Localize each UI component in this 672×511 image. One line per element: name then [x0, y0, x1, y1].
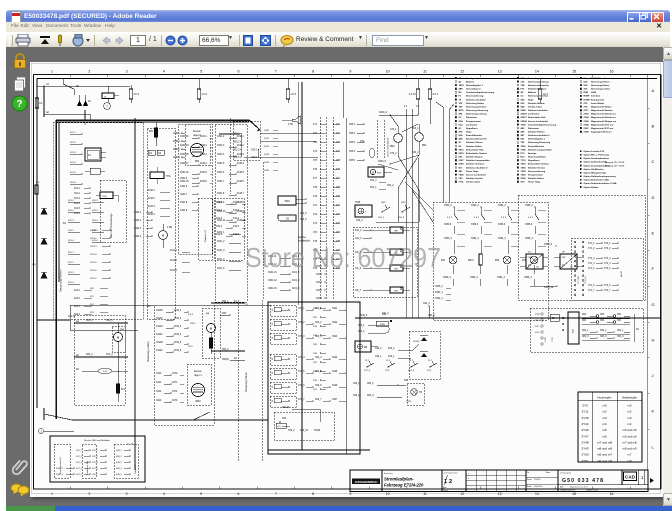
svg-text:K21.2: K21.2	[68, 262, 74, 264]
bus line mid	[355, 317, 660, 319]
svg-text:K21.2: K21.2	[68, 200, 74, 202]
svg-text:X32.3: X32.3	[234, 150, 241, 152]
switch S1 master	[62, 79, 64, 85]
svg-text:X41.3: X41.3	[92, 210, 98, 212]
svg-text:X341.11: X341.11	[217, 220, 226, 222]
svg-text:m3: m3	[602, 416, 606, 420]
fuse 1F8	[286, 89, 289, 99]
svg-text:[M]: [M]	[206, 313, 209, 315]
svg-text:3 F 9: 3 F 9	[134, 93, 140, 96]
svg-text:Anzeige: Anzeige	[466, 77, 475, 80]
svg-text:D: D	[652, 195, 655, 200]
svg-text:X60_3: X60_3	[600, 336, 607, 338]
svg-text:K23_2: K23_2	[388, 348, 395, 350]
right frame thick edge	[660, 75, 662, 490]
svg-text:X44.2: X44.2	[216, 210, 223, 212]
svg-text:X411: X411	[156, 382, 162, 384]
svg-text:H: H	[652, 337, 655, 342]
svg-text:4 S 3: 4 S 3	[501, 217, 507, 219]
deadman switches row	[367, 363, 374, 367]
svg-text:Φ: Φ	[372, 170, 374, 174]
svg-text:A: A	[652, 88, 655, 93]
svg-text:11: 11	[423, 70, 427, 74]
svg-text:X342_4: X342_4	[56, 474, 64, 476]
svg-text:X41.4: X41.4	[92, 220, 98, 222]
svg-text:Hupe: Hupe	[528, 99, 534, 101]
svg-text:Endschalter Hub: Endschalter Hub	[528, 116, 546, 119]
motor M2 service	[159, 231, 168, 240]
svg-text:Option Leuchte F12: Option Leuchte F12	[584, 150, 605, 153]
svg-text:2Y48: 2Y48	[584, 131, 590, 134]
svg-text:m7 und m8: m7 und m8	[623, 440, 637, 444]
svg-text:Sicherung Interface: Sicherung Interface	[528, 95, 549, 98]
svg-text:Endschalter Hub: Endschalter Hub	[466, 148, 484, 151]
svg-text:X3(49: X3(49	[314, 430, 321, 432]
svg-text:X350_4: X350_4	[443, 277, 452, 279]
svg-text:7Y45: 7Y45	[521, 148, 527, 151]
svg-text:K23_1: K23_1	[388, 356, 395, 358]
svg-text:X47_4: X47_4	[92, 468, 99, 470]
comments icon	[10, 483, 30, 498]
svg-text:X31.4: X31.4	[316, 282, 323, 284]
multiplex S3 block	[198, 198, 212, 260]
heavy bus feeder	[56, 119, 249, 121]
svg-text:K21.4: K21.4	[68, 282, 74, 284]
svg-text:X60_4: X60_4	[86, 354, 93, 356]
svg-text:Sensor-: Sensor-	[193, 130, 202, 133]
svg-text:ALGN: ALGN	[620, 271, 623, 277]
svg-text:Fahrmotor: Fahrmotor	[466, 116, 477, 119]
svg-text:G: G	[652, 302, 655, 307]
svg-text:Steuerung Heben: Steuerung Heben	[245, 372, 248, 392]
svg-text:K21.3: K21.3	[68, 220, 74, 222]
svg-text:X31.5: X31.5	[316, 290, 323, 292]
svg-text:X344.3: X344.3	[134, 228, 142, 230]
svg-text:X341.6: X341.6	[180, 186, 188, 188]
svg-text:X4109: X4109	[156, 342, 163, 344]
svg-text:X79_1: X79_1	[390, 129, 397, 131]
svg-text:Signalhorn: Signalhorn	[528, 160, 540, 162]
svg-text:Ausgang 24V / 312N: Ausgang 24V / 312N	[605, 165, 625, 168]
svg-text:Sicherung Heben: Sicherung Heben	[466, 103, 485, 105]
svg-text:K13.3: K13.3	[233, 218, 240, 220]
svg-text:Zugmagnet Bremse: Zugmagnet Bremse	[591, 131, 612, 134]
svg-text:2Y46: 2Y46	[584, 123, 590, 126]
svg-text:X41.2: X41.2	[92, 200, 98, 202]
svg-text:X61_3: X61_3	[106, 320, 113, 322]
svg-text:12: 12	[460, 492, 464, 496]
svg-text:X470: X470	[172, 373, 178, 375]
svg-text:X341: X341	[264, 138, 270, 140]
svg-text:X73_4: X73_4	[604, 263, 611, 265]
mini console dashed box	[100, 180, 126, 242]
module LR1	[526, 254, 543, 269]
svg-text:Fahrzeug ET2/4-220: Fahrzeug ET2/4-220	[384, 483, 424, 488]
relay box x5	[102, 93, 114, 99]
svg-text:X21.5: X21.5	[74, 208, 81, 210]
svg-text:Benennung: Benennung	[384, 473, 393, 475]
svg-text:X341.5: X341.5	[217, 163, 225, 165]
svg-text:X29_2: X29_2	[288, 430, 295, 432]
svg-text:Zeichnungs-Nr: Zeichnungs-Nr	[560, 472, 572, 475]
svg-text:X32.2: X32.2	[234, 142, 241, 144]
svg-text:m2: m2	[602, 410, 606, 414]
svg-text:X200: X200	[521, 178, 527, 180]
svg-text:Schluesselschalter 2: Schluesselschalter 2	[466, 166, 488, 169]
svg-text:IC44.2: IC44.2	[170, 260, 177, 262]
svg-text:m5 und m7: m5 und m7	[597, 453, 612, 457]
svg-text:X84_3: X84_3	[367, 395, 374, 397]
main enclosure solid box	[300, 112, 540, 454]
wire X32 to X7 rows	[260, 133, 320, 135]
svg-text:X341.4: X341.4	[217, 154, 225, 156]
svg-text:Fahrmotor: Fahrmotor	[528, 127, 539, 130]
svg-text:X341.14: X341.14	[268, 280, 277, 282]
wire drop col5	[287, 79, 289, 90]
svg-text:X341.20: X341.20	[180, 136, 189, 138]
connector block X71 X73	[571, 238, 643, 300]
svg-text:X60(2): X60(2)	[222, 359, 229, 361]
svg-text:X29.20: X29.20	[282, 407, 290, 409]
wire left rail lower	[43, 117, 45, 392]
svg-text:7S19: 7S19	[521, 164, 527, 166]
svg-text:Magnetventil 2YO vor: Magnetventil 2YO vor	[591, 123, 614, 126]
valve control block A10	[530, 308, 643, 352]
reference node 1	[38, 428, 43, 433]
svg-text:X341.7: X341.7	[217, 181, 225, 183]
svg-text:Option Sonderabnehmer: Option Sonderabnehmer	[584, 157, 610, 160]
svg-text:X70_7: X70_7	[298, 399, 305, 401]
box S3 limit	[278, 215, 296, 221]
svg-text:2Y43: 2Y43	[584, 113, 590, 116]
svg-text:Sensor-: Sensor-	[194, 370, 203, 373]
svg-text:Geschwindigkeitsmessung: Geschwindigkeitsmessung	[528, 123, 557, 126]
svg-text:K: K	[652, 409, 655, 414]
svg-text:K13.1: K13.1	[233, 202, 240, 204]
lamp 9M1	[415, 133, 424, 142]
svg-text:m8 und m9: m8 und m9	[623, 447, 637, 451]
svg-text:7: 7	[275, 492, 277, 496]
svg-text:21.03.00: 21.03.00	[534, 479, 540, 481]
svg-text:7S25: 7S25	[459, 174, 465, 176]
svg-text:36F2: 36F2	[195, 401, 201, 403]
svg-text:K31.2: K31.2	[68, 230, 74, 232]
svg-text:K21.1: K21.1	[68, 252, 74, 254]
diode V2	[41, 238, 47, 244]
svg-text:X44.3: X44.3	[216, 218, 223, 220]
right modules enclosure	[518, 195, 645, 300]
svg-text:X71_4: X71_4	[588, 263, 595, 265]
svg-text:X41.6: X41.6	[92, 240, 98, 242]
svg-text:X343: X343	[264, 154, 270, 156]
svg-text:2Y47: 2Y47	[581, 434, 588, 438]
connector X341 column A	[179, 124, 213, 254]
svg-text:X72_3: X72_3	[364, 370, 371, 372]
svg-text:X21.3: X21.3	[74, 198, 81, 200]
svg-text:X200_A: X200_A	[379, 111, 388, 114]
connector X341 column B	[215, 124, 247, 302]
svg-text:X342: X342	[264, 146, 270, 148]
svg-text:X326: X326	[332, 385, 338, 387]
svg-text:23S75: 23S75	[521, 114, 528, 116]
svg-text:13: 13	[498, 70, 502, 74]
svg-text:K21.2: K21.2	[70, 142, 76, 144]
fuse 3F9	[129, 89, 132, 99]
svg-text:9M1: 9M1	[422, 145, 427, 147]
svg-text:m5 und m6: m5 und m6	[623, 434, 637, 438]
svg-text:X341.7: X341.7	[180, 194, 188, 196]
svg-text:Magnetventil Senken: Magnetventil Senken	[591, 109, 613, 112]
svg-text:X31.3: X31.3	[316, 274, 323, 276]
svg-text:22S77: 22S77	[521, 117, 528, 119]
svg-text:lager 2: lager 2	[193, 134, 201, 137]
main bus Steuerung	[37, 319, 70, 321]
encoder 7S25	[355, 205, 372, 217]
lift motor group	[202, 308, 220, 358]
svg-text:IC40.3: IC40.3	[148, 206, 155, 208]
svg-text:X71_2: X71_2	[588, 248, 595, 250]
svg-text:IC49_1: IC49_1	[174, 310, 182, 312]
svg-text:K24.4: K24.4	[74, 314, 81, 316]
svg-text:Ventil Lenken: Ventil Lenken	[466, 181, 481, 184]
svg-text:X345: X345	[264, 170, 270, 172]
steering controller rows	[154, 305, 214, 425]
svg-text:8: 8	[312, 492, 314, 496]
svg-text:5: 5	[200, 492, 202, 496]
svg-text:Name: Name	[546, 472, 550, 474]
svg-text:96P: 96P	[394, 231, 398, 233]
letter margin line	[647, 75, 649, 490]
svg-text:X70_4: X70_4	[298, 357, 305, 359]
svg-text:X70_6: X70_6	[298, 385, 305, 387]
svg-text:X41_3: X41_3	[355, 238, 362, 240]
svg-text:Arbeitsscheinwerfer: Arbeitsscheinwerfer	[466, 138, 487, 141]
legend option list	[580, 150, 582, 152]
svg-text:X21.6: X21.6	[74, 213, 81, 215]
sensor bearing 2 box	[185, 124, 210, 165]
svg-text:IC46.6: IC46.6	[200, 181, 207, 183]
svg-text:X21.2: X21.2	[74, 193, 81, 195]
svg-text:9: 9	[349, 492, 351, 496]
svg-text:KUSR: KUSR	[584, 99, 591, 101]
svg-text:X352.3: X352.3	[471, 224, 479, 226]
node A1	[43, 85, 44, 86]
svg-text:K21.1: K21.1	[70, 132, 76, 134]
svg-text:b: b	[468, 478, 469, 480]
pages icon	[12, 76, 28, 93]
svg-text:K73_3: K73_3	[408, 370, 415, 372]
svg-text:IC46.1: IC46.1	[200, 136, 207, 138]
main frame	[34, 75, 661, 490]
svg-text:IC48.6: IC48.6	[237, 181, 244, 183]
svg-text:X340: X340	[264, 130, 270, 132]
antenna sensors 23-100	[409, 331, 440, 379]
svg-text:X472: X472	[172, 391, 178, 393]
svg-text:X41.16: X41.16	[90, 270, 97, 272]
svg-text:1: 1	[51, 492, 53, 496]
svg-text:Schalter Fahren: Schalter Fahren	[528, 131, 545, 134]
svg-text:X352_3: X352_3	[471, 238, 480, 240]
svg-text:Steuerung Lenken: Steuerung Lenken	[591, 88, 611, 91]
svg-text:2Y45: 2Y45	[581, 416, 588, 420]
svg-text:IC44.1: IC44.1	[170, 250, 177, 252]
svg-text:X350_1: X350_1	[435, 286, 444, 288]
svg-text:X32.4: X32.4	[234, 157, 241, 159]
svg-text:X65.3: X65.3	[349, 142, 356, 144]
svg-text:K48_3: K48_3	[116, 462, 123, 464]
svg-text:m8 und m9: m8 und m9	[597, 447, 612, 451]
diagonal to bus	[390, 155, 419, 164]
svg-text:Anzeige: Anzeige	[528, 152, 537, 155]
svg-text:Drehzahlgeber 1: Drehzahlgeber 1	[528, 139, 546, 141]
help icon	[11, 95, 28, 112]
svg-text:Magnetventil Schub vor: Magnetventil Schub vor	[591, 113, 616, 116]
svg-text:IC49_5: IC49_5	[174, 342, 182, 344]
svg-text:X341.19: X341.19	[180, 145, 189, 147]
svg-text:2Y47: 2Y47	[584, 127, 590, 130]
svg-text:Schluesselschalter: Schluesselschalter	[528, 109, 548, 112]
svg-text:Option Schwenkschieber / LISA: Option Schwenkschieber / LISA	[584, 182, 617, 185]
svg-text:Lenkmotor: Lenkmotor	[528, 113, 539, 116]
svg-text:B: B	[652, 123, 655, 128]
svg-text:4 S 3: 4 S 3	[528, 217, 534, 219]
svg-text:IC46.4: IC46.4	[200, 163, 207, 165]
relay K1	[85, 148, 101, 161]
svg-text:Sensorlager 2: Sensorlager 2	[466, 89, 481, 91]
svg-text:a: a	[468, 473, 469, 475]
svg-text:X84_2: X84_2	[367, 383, 374, 385]
svg-text:X84_3: X84_3	[582, 336, 589, 338]
svg-text:IC48.5: IC48.5	[237, 172, 244, 174]
svg-text:X356_3: X356_3	[525, 238, 534, 240]
svg-text:X32.6: X32.6	[251, 157, 258, 159]
svg-text:Pumpenmotor: Pumpenmotor	[466, 120, 481, 123]
svg-text:Schalter Fahren: Schalter Fahren	[466, 141, 483, 144]
svg-text:X61_4: X61_4	[106, 354, 113, 356]
wire drop col13	[539, 79, 541, 90]
svg-text:K13.5: K13.5	[233, 234, 240, 236]
svg-text:XPS: XPS	[562, 257, 567, 259]
svg-text:K13.2: K13.2	[233, 210, 240, 212]
solenoid assignment table	[578, 392, 642, 462]
svg-text:X354_4: X354_4	[497, 277, 506, 279]
svg-text:Taster Hupe: Taster Hupe	[528, 181, 541, 184]
svg-text:IC48.4: IC48.4	[237, 163, 244, 165]
svg-text:Magnetventil Schub zur: Magnetventil Schub zur	[591, 116, 616, 119]
svg-text:23S9: 23S9	[459, 164, 465, 166]
svg-text:X471: X471	[172, 382, 178, 384]
svg-text:X352_1: X352_1	[435, 298, 444, 300]
svg-text:X327: X327	[332, 399, 338, 401]
svg-text:X42_3: X42_3	[382, 313, 389, 315]
svg-text:Schalter Heben: Schalter Heben	[466, 145, 483, 148]
svg-text:K24.3: K24.3	[74, 306, 81, 308]
svg-text:X341.9: X341.9	[180, 210, 188, 212]
svg-text:X29_X1: X29_X1	[300, 430, 309, 432]
svg-text:X65.4: X65.4	[349, 151, 356, 153]
svg-text:Komponente: Komponente	[591, 98, 605, 101]
svg-text:X47_1: X47_1	[92, 450, 99, 452]
svg-text:K21.4: K21.4	[68, 240, 74, 242]
svg-text:lager 1: lager 1	[194, 374, 202, 377]
ground symbol main	[82, 110, 88, 124]
svg-text:X43_2: X43_2	[412, 152, 419, 154]
svg-text:X47_3: X47_3	[92, 462, 99, 464]
svg-text:7: 7	[275, 70, 277, 74]
svg-text:X60_1: X60_1	[600, 330, 607, 332]
svg-text:K21.3: K21.3	[70, 152, 76, 154]
node A2	[43, 113, 44, 114]
svg-text:4 S 3: 4 S 3	[474, 217, 480, 219]
svg-text:Service-: Service-	[298, 236, 307, 239]
svg-text:2Y44: 2Y44	[581, 422, 588, 426]
svg-text:X29_1: X29_1	[353, 383, 360, 385]
svg-text:Schalter Notaus: Schalter Notaus	[528, 102, 545, 105]
svg-text:X81_1: X81_1	[617, 330, 624, 332]
svg-text:X34_4: X34_4	[356, 220, 363, 222]
svg-text:Steuersicherung: Steuersicherung	[466, 95, 484, 98]
svg-text:X73_9/3: X73_9/3	[585, 276, 587, 284]
svg-text:K73_: K73_	[427, 370, 433, 372]
wire bottom left feeder	[69, 320, 71, 330]
svg-text:Schluesselschalter: Schluesselschalter	[466, 98, 486, 101]
svg-text:Signalhorn: Signalhorn	[466, 128, 478, 130]
svg-text:23/100: 23/100	[413, 341, 420, 343]
svg-text:Bl.ges.: Bl.ges.	[444, 490, 449, 492]
svg-text:m6 und m8: m6 und m8	[597, 459, 612, 463]
svg-text:X344: X344	[264, 162, 270, 164]
relay 7Y03	[100, 192, 113, 199]
svg-text:CAD: CAD	[625, 475, 636, 480]
svg-text:3: 3	[126, 70, 128, 74]
svg-text:K21.6: K21.6	[70, 182, 76, 184]
svg-text:X35d_9: X35d_9	[544, 244, 553, 246]
svg-text:X341.17: X341.17	[180, 163, 189, 165]
svg-text:Sicherung Lenkung: Sicherung Lenkung	[466, 114, 487, 116]
svg-text:2Y46: 2Y46	[581, 428, 588, 432]
svg-text:X54_2: X54_2	[387, 185, 394, 187]
svg-text:X49_2: X49_2	[375, 348, 382, 350]
svg-text:X54_3: X54_3	[370, 180, 377, 182]
svg-text:Arbeitsscheinwerfer: Arbeitsscheinwerfer	[528, 84, 549, 87]
svg-text:m8: m8	[628, 459, 632, 463]
svg-text:4: 4	[163, 492, 165, 496]
svg-text:7S30: 7S30	[521, 146, 527, 148]
svg-text:X29_7: X29_7	[315, 399, 322, 401]
svg-text:X79_1: X79_1	[358, 325, 365, 327]
svg-text:2S19: 2S19	[459, 153, 465, 155]
svg-text:Option Uhr/Monitor: Option Uhr/Monitor	[584, 168, 604, 171]
legend column 2	[517, 77, 519, 79]
svg-text:IC48.7: IC48.7	[237, 193, 244, 195]
svg-text:X324: X324	[332, 357, 338, 359]
svg-text:Option Datenfunk / LISA: Option Datenfunk / LISA	[584, 179, 610, 182]
connector X7 double column	[319, 117, 321, 300]
svg-text:X342_3: X342_3	[56, 468, 64, 470]
svg-text:X73_2: X73_2	[604, 248, 611, 250]
svg-text:23S90: 23S90	[521, 121, 528, 123]
svg-text:X81_3: X81_3	[617, 336, 624, 338]
svg-text:IC48.3: IC48.3	[237, 154, 244, 156]
svg-text:X47_5: X47_5	[76, 474, 83, 476]
svg-text:Sicherung Interface: Sicherung Interface	[466, 105, 487, 108]
svg-text:IC48.2: IC48.2	[237, 145, 244, 147]
connector X32 box	[233, 121, 260, 160]
svg-text:Schalter Langsamfahrt: Schalter Langsamfahrt	[466, 159, 490, 162]
lamp group columns	[433, 202, 548, 320]
svg-text:K22.2: K22.2	[68, 210, 74, 212]
svg-text:X31.6: X31.6	[316, 298, 323, 300]
